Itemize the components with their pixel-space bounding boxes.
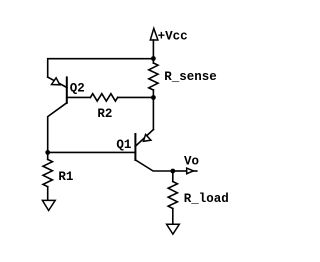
wire node B down to Q1 emitter [152,98,154,130]
svg-text:R_load: R_load [184,192,229,206]
wire node C to R_load [172,171,174,182]
wire R1 to ground [47,187,49,200]
svg-text:R1: R1 [58,170,73,184]
node D junction dot [45,150,50,155]
wire node D to R1 [47,152,49,159]
wire R2 to node B [118,96,154,98]
resistor R1 [43,159,52,186]
transistor Q1 base bar [134,134,136,160]
wire node C to Vo arrow [173,170,187,172]
transistor Q2 emitter diagonal [48,77,67,87]
node B junction dot [151,95,156,100]
wire node D to Q1 base [48,151,136,153]
ground (right) [167,224,180,234]
output pin Vo arrow [187,168,194,174]
power symbol +Vcc [150,28,158,40]
transistor Q2 collector diagonal [48,103,67,152]
resistor R_load [168,182,177,209]
transistor Q1 collector diagonal [135,160,172,171]
wire Vcc vertical to node A [152,40,154,59]
resistor R2 [90,94,117,101]
transistor Q1 emitter diagonal [135,130,153,147]
svg-text:R2: R2 [97,107,112,121]
wire Q2 base to R2 [67,96,91,98]
transistor Q2 base bar [66,77,68,102]
node C junction dot [170,169,175,174]
resistor R_sense [152,59,154,64]
transistor Q2 emitter arrow [52,78,60,85]
node A junction dot [151,56,156,61]
wire R_load to ground [172,209,174,225]
svg-text:Vo: Vo [184,154,199,168]
wire top horizontal from node A to Q2 emitter branch [48,59,154,77]
svg-text:Q1: Q1 [116,138,131,152]
transistor Q1 emitter arrow [143,135,151,142]
svg-text:+Vcc: +Vcc [158,30,188,44]
svg-text:R_sense: R_sense [164,70,217,84]
svg-text:Q2: Q2 [70,82,85,96]
ground (left) [42,200,55,210]
